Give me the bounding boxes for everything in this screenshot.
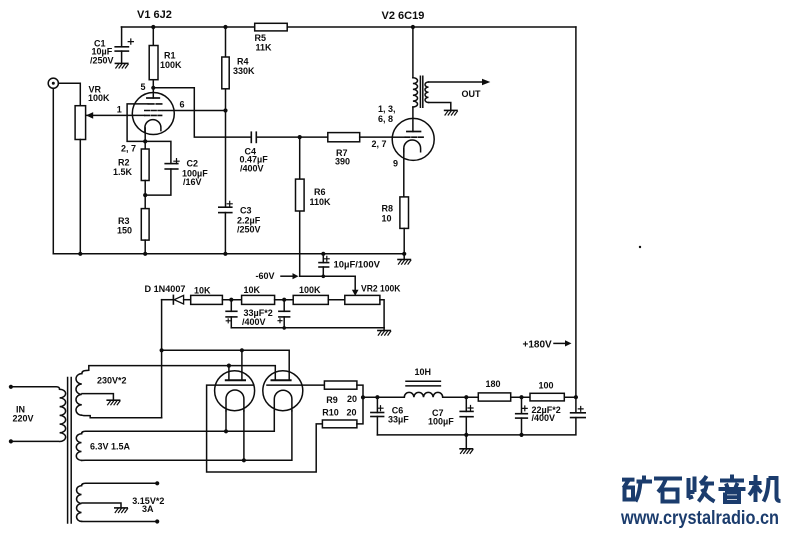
output transformer core	[420, 76, 422, 107]
svg-text:100µF: 100µF	[428, 416, 454, 426]
svg-text:100K: 100K	[160, 60, 182, 70]
resistor R6	[296, 137, 305, 276]
svg-text:20: 20	[347, 394, 357, 404]
capacitor 10uF/100V	[319, 254, 329, 276]
wire right rail lower + bottom filter rail	[377, 418, 576, 435]
wire diode to 230V winding bottom	[161, 300, 163, 418]
wire filter line left	[363, 396, 404, 398]
svg-text:2, 7: 2, 7	[121, 144, 136, 154]
input jack	[48, 78, 80, 254]
wire rectifier plates line1	[162, 350, 290, 380]
svg-text:C2: C2	[187, 159, 199, 169]
resistor 100K bias	[293, 295, 345, 304]
potentiometer VR2	[345, 295, 384, 327]
choke 10H coil	[404, 392, 442, 397]
wire tube A left filament leg	[225, 411, 227, 431]
resistor R7	[328, 133, 393, 142]
capacitor C3	[219, 201, 232, 254]
watermark char kuang	[622, 476, 652, 502]
svg-text:6, 8: 6, 8	[378, 114, 393, 124]
svg-text:R10: R10	[322, 408, 339, 418]
power transformer IN leads	[11, 387, 60, 389]
capacitor 33uF bias second	[278, 300, 290, 328]
svg-text:1, 3,: 1, 3,	[378, 104, 396, 114]
power transformer 230V winding	[76, 374, 82, 416]
svg-text:9: 9	[393, 159, 398, 169]
watermark char shi	[654, 479, 682, 502]
ground bias network	[378, 328, 391, 335]
wire 3.15V center tap	[82, 503, 121, 508]
potentiometer VR2 wiper arrow	[352, 276, 359, 296]
wire OUT with arrow	[429, 79, 491, 86]
capacitor 22uF first	[516, 397, 528, 435]
svg-text:-60V: -60V	[256, 271, 275, 281]
watermark logo	[622, 475, 781, 503]
watermark char ji	[749, 475, 781, 502]
output transformer primary	[413, 27, 418, 107]
svg-text:R2: R2	[118, 158, 130, 168]
wire 230V bottom lead	[82, 415, 162, 418]
ground below output transformer	[445, 110, 458, 115]
capacitor 22uF second on rail	[571, 407, 586, 418]
resistor R9	[324, 381, 363, 397]
watermark char shou	[689, 476, 715, 502]
svg-text:VR2 100K: VR2 100K	[361, 284, 401, 294]
tube V1 suppressor grid row + cathode bypass wire	[127, 104, 171, 163]
svg-text:R9: R9	[326, 395, 338, 405]
wire tube A right plate lead	[241, 350, 243, 380]
wire V1 plate to C4	[153, 88, 251, 137]
resistor R5	[255, 23, 288, 31]
potentiometer VR	[75, 106, 93, 254]
svg-text:20: 20	[347, 408, 357, 418]
svg-text:V2 6C19: V2 6C19	[382, 10, 425, 22]
rectifier tube A plate bar	[226, 379, 245, 381]
wire bias bottom line	[231, 327, 384, 329]
svg-text:10H: 10H	[415, 367, 432, 377]
svg-text:230V*2: 230V*2	[97, 375, 127, 385]
capacitor C7	[460, 397, 473, 435]
ground 3.15V center tap	[115, 508, 128, 513]
rectifier tube B cathode line to R9	[267, 384, 324, 386]
wire right B+ rail upper	[575, 27, 577, 413]
capacitor C1	[115, 27, 133, 63]
ground below C7	[460, 435, 473, 454]
svg-text:R4: R4	[237, 57, 249, 67]
wire secondary bottom to ground	[429, 103, 451, 111]
ground rail	[53, 253, 404, 255]
svg-text:150: 150	[117, 226, 132, 236]
svg-text:220V: 220V	[13, 413, 34, 423]
rectifier tube A filament	[226, 390, 244, 411]
capacitor C6	[371, 397, 384, 435]
ground below C1	[115, 63, 128, 68]
power transformer core	[68, 378, 72, 524]
choke 10H core	[406, 381, 440, 386]
power transformer 6.3V winding	[76, 434, 81, 461]
capacitor C4	[251, 132, 327, 142]
tube V2 cathode	[404, 140, 421, 197]
svg-text:10K: 10K	[244, 285, 261, 295]
tube V1 control grid row pin1	[86, 114, 162, 116]
svg-text:10K: 10K	[194, 286, 211, 296]
rectifier tube A cathode line and path to R10	[207, 385, 323, 472]
wire -60V bias line	[300, 275, 356, 277]
tube V2 grid row	[392, 136, 423, 138]
ground below R8	[398, 254, 411, 264]
wire 230V top to rectifier plates line2	[82, 366, 275, 381]
tube V2 plate	[407, 107, 421, 132]
svg-text:D 1N4007: D 1N4007	[145, 284, 186, 294]
svg-text:100K: 100K	[299, 285, 321, 295]
svg-text:110K: 110K	[310, 197, 332, 207]
resistor R10	[322, 397, 363, 427]
svg-text:390: 390	[335, 157, 350, 167]
svg-text:1: 1	[117, 105, 122, 115]
capacitor C2	[145, 159, 179, 196]
svg-text:11K: 11K	[256, 43, 273, 53]
resistor R1	[149, 27, 158, 98]
svg-text:/400V: /400V	[532, 413, 556, 423]
wire heater line L2	[82, 411, 292, 460]
svg-text:www.crystalradio.cn: www.crystalradio.cn	[620, 508, 779, 529]
svg-text:330K: 330K	[233, 66, 255, 76]
tube V1 screen grid row pin6	[145, 110, 226, 112]
wire filter line right	[443, 396, 576, 398]
svg-text:/400V: /400V	[240, 164, 264, 174]
output transformer secondary	[425, 82, 429, 102]
tube V1 cathode	[145, 120, 161, 149]
resistor 10K first	[191, 295, 242, 304]
svg-text:R6: R6	[314, 187, 326, 197]
resistor R4	[222, 27, 229, 207]
wire tube A left plate lead	[228, 366, 230, 381]
rectifier tube B envelope	[263, 371, 303, 411]
capacitor 33uF bias first	[226, 300, 237, 328]
svg-text:OUT: OUT	[462, 89, 482, 99]
svg-text:R1: R1	[164, 51, 176, 61]
svg-text:3A: 3A	[142, 504, 154, 514]
svg-text:5: 5	[141, 82, 146, 92]
rectifier tube B filament	[274, 390, 292, 411]
arrow -60V label	[281, 273, 299, 279]
svg-text:R5: R5	[255, 33, 267, 43]
svg-text:100: 100	[539, 381, 554, 391]
svg-text:6: 6	[180, 100, 185, 110]
wire 3.15V top lead	[82, 483, 158, 485]
power transformer primary coil	[11, 389, 66, 441]
svg-text:1.5K: 1.5K	[113, 167, 133, 177]
svg-text:10: 10	[382, 214, 392, 224]
wire 3.15V bottom lead	[82, 520, 158, 522]
rectifier tube B plate bar	[272, 379, 291, 381]
wire 230V center tap	[82, 394, 113, 401]
resistor R8	[400, 197, 409, 254]
resistor R2	[141, 149, 149, 209]
svg-text:2, 7: 2, 7	[372, 139, 387, 149]
resistor 100	[530, 393, 564, 401]
svg-text:/250V: /250V	[90, 56, 114, 66]
svg-text:/400V: /400V	[242, 317, 266, 327]
svg-text:180: 180	[486, 379, 501, 389]
svg-text:33µF: 33µF	[388, 415, 409, 425]
svg-text:/16V: /16V	[183, 177, 202, 187]
svg-text:+180V: +180V	[523, 340, 553, 351]
arrow +180V label	[554, 340, 572, 346]
resistor 180	[478, 393, 510, 401]
wire top B+ rail	[121, 26, 576, 28]
svg-text:6.3V 1.5A: 6.3V 1.5A	[90, 442, 131, 452]
tube V2 envelope	[392, 118, 434, 160]
resistor 10K second	[242, 295, 294, 304]
svg-text:V1 6J2: V1 6J2	[137, 9, 172, 21]
watermark char yin	[719, 475, 746, 503]
tube V1 envelope	[132, 93, 174, 135]
stray speck	[639, 246, 641, 248]
power transformer 3.15V winding	[77, 486, 82, 522]
tube V1 plate pin5	[147, 97, 159, 99]
svg-text:/250V: /250V	[237, 224, 261, 234]
resistor R3	[141, 209, 149, 254]
svg-text:C3: C3	[240, 206, 252, 216]
svg-text:R3: R3	[118, 216, 130, 226]
diode D 1N4007	[162, 295, 191, 304]
svg-text:100K: 100K	[88, 93, 110, 103]
ground 230V center tap	[107, 400, 120, 405]
svg-text:R8: R8	[382, 204, 394, 214]
wire tube A right filament leg	[243, 411, 245, 460]
rectifier tube A envelope	[215, 371, 255, 411]
wire heater line L1	[82, 411, 275, 434]
svg-text:10µF/100V: 10µF/100V	[334, 260, 381, 270]
